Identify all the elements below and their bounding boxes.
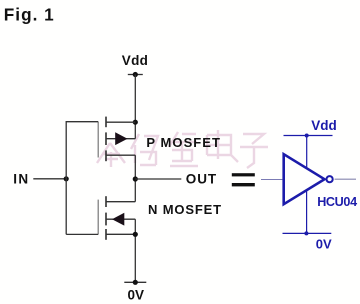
wire: inverter down to 0V bbox=[306, 191, 308, 234]
inverter U1 output bubble bbox=[327, 176, 333, 182]
transistor M2 N MOSFET: bulk terminal with arrow bbox=[106, 213, 135, 226]
svg-text:0V: 0V bbox=[316, 236, 332, 251]
svg-text:N MOSFET: N MOSFET bbox=[148, 202, 222, 217]
node: IN junction dot bbox=[64, 176, 69, 181]
svg-text:HCU04: HCU04 bbox=[317, 195, 357, 209]
svg-text:IN: IN bbox=[13, 171, 29, 186]
node: P MOSFET source junction dot bbox=[133, 120, 138, 125]
transistor M1 P MOSFET: drain terminal (bottom) bbox=[106, 154, 135, 156]
wire: IN lead bbox=[33, 178, 66, 180]
transistor M2 N MOSFET: drain terminal (top) bbox=[106, 201, 135, 203]
svg-text:Fig. 1: Fig. 1 bbox=[4, 5, 55, 25]
node: Vdd junction dot bbox=[133, 72, 138, 77]
wire: blue 0V rail bbox=[283, 232, 332, 234]
svg-text:0V: 0V bbox=[128, 288, 145, 303]
transistor M1 P MOSFET: source terminal (top) bbox=[106, 121, 135, 123]
transistor M1 P MOSFET: gate bar bbox=[97, 122, 99, 158]
watermark bbox=[97, 130, 268, 168]
transistor M2 N MOSFET: gate bar bbox=[97, 200, 99, 235]
svg-text:Vdd: Vdd bbox=[311, 118, 337, 133]
inverter U1 triangle bbox=[284, 154, 325, 204]
wire: inverter output lead bbox=[335, 178, 356, 180]
wire: Vdd rail down to P MOSFET source/bulk bbox=[134, 75, 136, 139]
wire: blue Vdd rail bbox=[284, 135, 333, 137]
node: 0V junction dot bbox=[133, 280, 138, 285]
transistor M2 N MOSFET: source terminal (bottom) bbox=[106, 233, 135, 235]
transistor M1 P MOSFET: bulk terminal with arrow bbox=[106, 132, 135, 145]
node: N MOSFET source junction dot bbox=[133, 232, 138, 237]
svg-text:P MOSFET: P MOSFET bbox=[146, 135, 221, 150]
wire: gate loop (input to both gates) bbox=[66, 122, 98, 235]
equivalence symbol bbox=[232, 173, 255, 186]
node: blue Vdd junction dot bbox=[305, 134, 309, 138]
0V terminal tick bbox=[124, 281, 146, 283]
Vdd terminal tick bbox=[128, 74, 143, 76]
wire: OUT stub bbox=[135, 178, 181, 180]
transistor M2 N MOSFET: channel segments bbox=[105, 196, 107, 240]
wire: N bulk rail down to 0V bbox=[134, 219, 136, 282]
node: OUT junction dot bbox=[133, 176, 138, 181]
node: blue 0V junction dot bbox=[304, 231, 308, 235]
svg-text:OUT: OUT bbox=[186, 172, 217, 187]
wire: inverter input lead bbox=[261, 179, 283, 181]
transistor M1 P MOSFET: channel segments bbox=[105, 117, 107, 162]
svg-text:Vdd: Vdd bbox=[122, 53, 148, 68]
wire: P drain down to OUT node bbox=[134, 155, 136, 202]
wire: Vdd down to inverter bbox=[306, 136, 308, 169]
